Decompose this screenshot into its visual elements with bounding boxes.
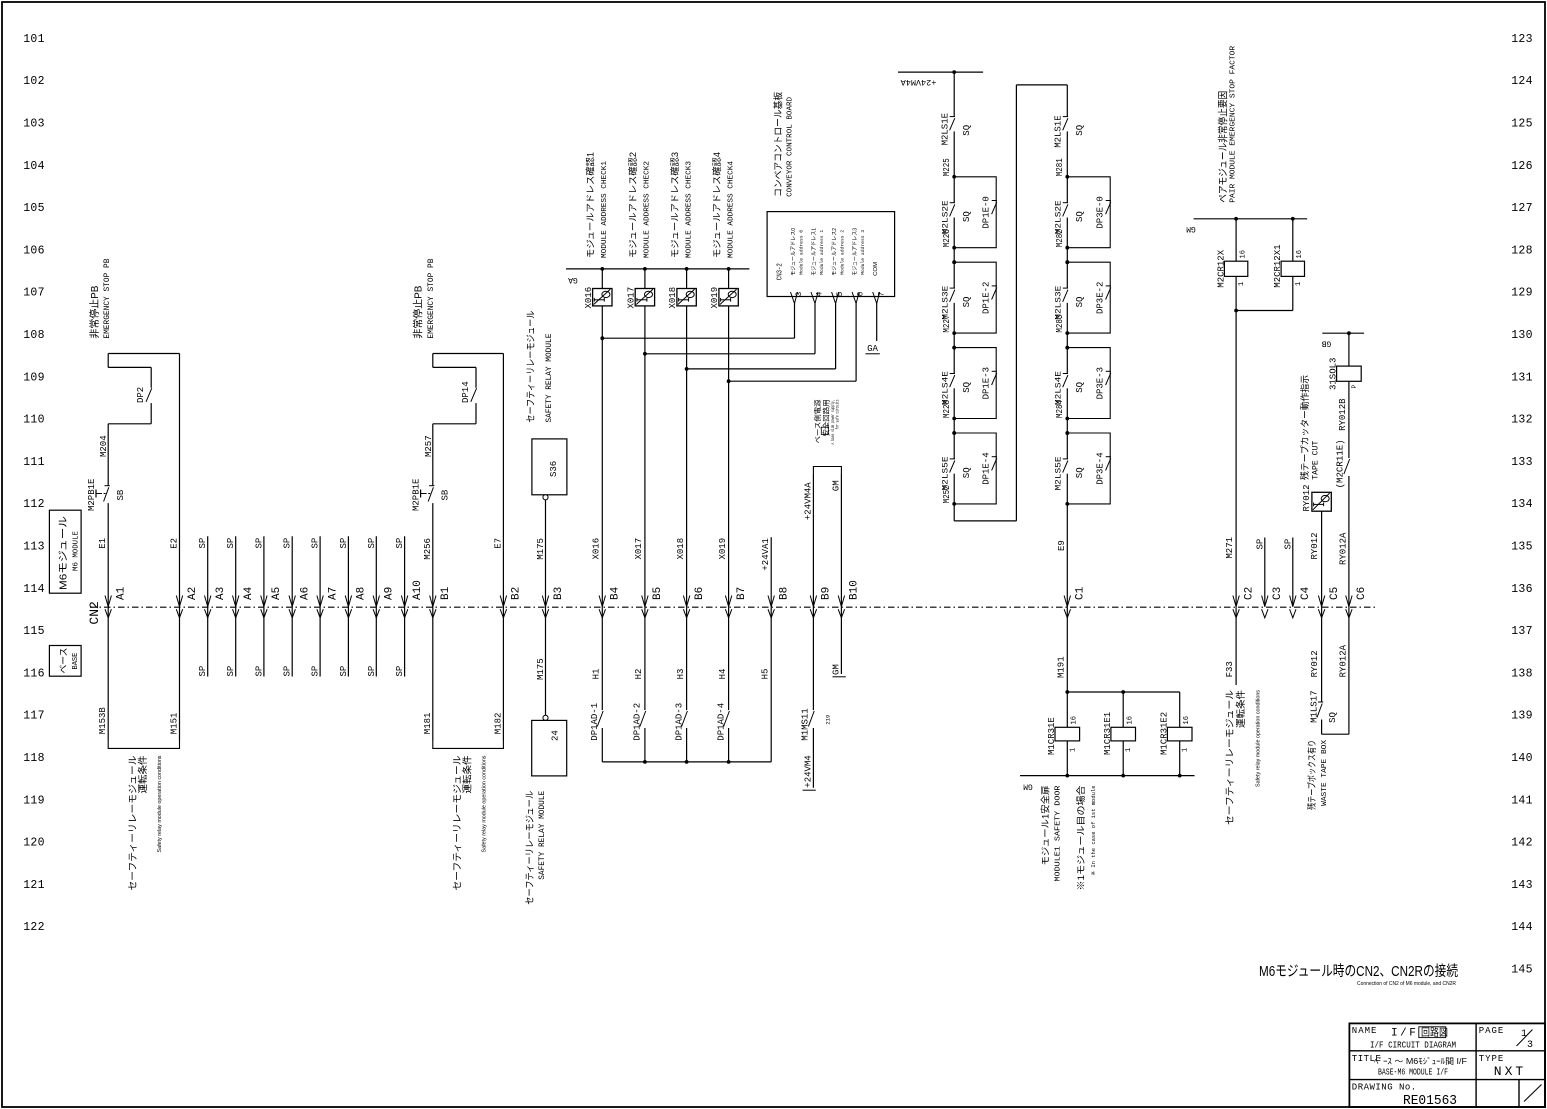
spare wire SP column A3 above CN2 xyxy=(207,536,209,676)
svg-text:M151: M151 xyxy=(170,713,180,735)
svg-text:140: 140 xyxy=(1511,752,1533,765)
contact (M2CR11E) xyxy=(1344,459,1350,474)
svg-text:1: 1 xyxy=(1069,748,1077,752)
node C6 connector CN2 pin xyxy=(1346,596,1352,607)
svg-text:A4: A4 xyxy=(243,586,255,600)
right margin row numbers 123-145 xyxy=(1511,33,1533,977)
svg-text:141: 141 xyxy=(1511,794,1533,807)
svg-text:M282: M282 xyxy=(1055,229,1065,247)
svg-text:PAGE: PAGE xyxy=(1479,1026,1505,1036)
junction node M281 xyxy=(1065,175,1069,179)
svg-text:123: 123 xyxy=(1511,33,1533,46)
solenoid 31SOL3 xyxy=(1337,366,1362,381)
svg-text:M252: M252 xyxy=(942,485,952,503)
svg-text:TAPE CUT: TAPE CUT xyxy=(1311,441,1320,480)
junction xyxy=(1234,309,1238,313)
wire B10 GM stub below CN2 xyxy=(840,607,842,674)
node C4 connector CN2 pin xyxy=(1290,596,1296,607)
svg-text:M191: M191 xyxy=(1057,656,1067,678)
svg-text:M256: M256 xyxy=(423,538,433,560)
wire xyxy=(728,728,730,762)
svg-text:M2PB1E: M2PB1E xyxy=(412,479,422,511)
svg-text:モジュールアドレス1: モジュールアドレス1 xyxy=(810,228,817,276)
power rail GM (pair module) xyxy=(1194,218,1308,220)
svg-text:115: 115 xyxy=(23,625,45,638)
svg-text:M153B: M153B xyxy=(98,707,108,735)
junction node M252 xyxy=(952,502,956,506)
spare wire SP column A5 above CN2 xyxy=(263,536,265,676)
contact DP1AD-4 xyxy=(724,711,730,727)
svg-text:X017: X017 xyxy=(634,538,644,560)
svg-text:M271: M271 xyxy=(1225,537,1235,559)
junction node M226 xyxy=(952,246,956,250)
wire xyxy=(953,72,955,117)
svg-text:C6: C6 xyxy=(1356,587,1368,600)
svg-text:B4: B4 xyxy=(610,586,622,600)
svg-text:EMERGENCY STOP PB: EMERGENCY STOP PB xyxy=(102,259,112,339)
wire xyxy=(686,728,688,762)
svg-text:136: 136 xyxy=(1511,583,1533,596)
junction node M225 xyxy=(952,175,956,179)
contact M2LS5E xyxy=(953,433,955,459)
svg-text:X018: X018 xyxy=(668,287,678,309)
wire X018 down to CN2 xyxy=(686,306,688,607)
svg-text:Module address 2: Module address 2 xyxy=(839,230,845,275)
junction xyxy=(685,367,689,371)
svg-text:M2LS2E: M2LS2E xyxy=(940,200,950,234)
wire xyxy=(953,419,955,434)
wire xyxy=(1179,692,1181,727)
svg-text:NAME: NAME xyxy=(1352,1026,1378,1036)
contact DP1E-0 xyxy=(992,200,997,202)
module box 24 (safety relay module) xyxy=(532,720,567,776)
node B1 connector CN2 pin xyxy=(430,596,436,607)
node B3 connector CN2 pin xyxy=(542,596,548,607)
svg-text:SB: SB xyxy=(441,489,451,500)
svg-text:+24VM4A: +24VM4A xyxy=(803,482,813,520)
wire xyxy=(1066,218,1068,248)
svg-text:モジュールアドレス0: モジュールアドレス0 xyxy=(790,228,797,276)
wire xyxy=(601,728,603,762)
svg-text:DP1E-3: DP1E-3 xyxy=(982,367,992,399)
svg-text:H2: H2 xyxy=(634,669,644,680)
wire xyxy=(1122,741,1124,776)
svg-text:134: 134 xyxy=(1511,498,1533,511)
svg-text:for safe circuits: for safe circuits xyxy=(835,399,841,429)
svg-text:SB: SB xyxy=(116,489,126,500)
svg-text:SQ: SQ xyxy=(1075,211,1085,222)
svg-text:M2LS3E: M2LS3E xyxy=(940,286,950,320)
svg-text:SP: SP xyxy=(254,538,264,549)
svg-text:+24VA1: +24VA1 xyxy=(761,538,771,570)
svg-text:120: 120 xyxy=(23,837,45,850)
I/O point X016 xyxy=(593,289,612,306)
I/O point X019 xyxy=(719,289,738,306)
pin 5 connector symbol xyxy=(832,292,839,304)
wire xyxy=(1292,219,1294,261)
junction xyxy=(1065,690,1069,694)
svg-text:M257: M257 xyxy=(424,435,434,457)
node A5 connector CN2 pin xyxy=(261,596,267,607)
svg-text:127: 127 xyxy=(1511,202,1533,215)
wire down to CN2 xyxy=(107,503,109,740)
svg-text:A8: A8 xyxy=(356,587,368,600)
node A10 connector CN2 pin xyxy=(401,596,407,607)
svg-text:運転条件: 運転条件 xyxy=(137,755,149,793)
wire xyxy=(475,403,477,424)
bypass branch DP3E-0 xyxy=(1067,177,1110,248)
wire xyxy=(1321,607,1323,702)
svg-text:M226: M226 xyxy=(942,229,952,247)
svg-text:DP3E-4: DP3E-4 xyxy=(1096,452,1106,484)
wire xyxy=(1066,85,1068,117)
bypass branch DP3E-4 xyxy=(1067,433,1110,504)
svg-text:運転条件: 運転条件 xyxy=(1235,690,1247,728)
svg-text:DP1AD-3: DP1AD-3 xyxy=(674,703,684,741)
junction xyxy=(1065,774,1069,778)
svg-text:CN2: CN2 xyxy=(87,601,102,624)
svg-text:144: 144 xyxy=(1511,921,1533,934)
svg-text:SP: SP xyxy=(226,666,236,677)
svg-text:RY012: RY012 xyxy=(1310,650,1320,677)
svg-text:P: P xyxy=(1351,385,1358,389)
node C5 connector CN2 pin xyxy=(1318,596,1324,607)
svg-text:16: 16 xyxy=(1183,716,1191,724)
svg-text:M281: M281 xyxy=(1055,158,1065,176)
svg-text:ﾍﾞｰｽ ～ M6ﾓｼﾞｭｰﾙ間 I/F: ﾍﾞｰｽ ～ M6ﾓｼﾞｭｰﾙ間 I/F xyxy=(1374,1057,1467,1066)
junction xyxy=(1178,774,1182,778)
svg-text:SP: SP xyxy=(339,666,349,677)
wire xyxy=(1066,741,1068,776)
svg-text:Connection of CN2 of M6 module: Connection of CN2 of M6 module, and CN2R xyxy=(1357,981,1456,987)
svg-text:3: 3 xyxy=(1527,1040,1533,1051)
wire xyxy=(953,303,955,333)
svg-text:B5: B5 xyxy=(652,587,664,600)
svg-text:142: 142 xyxy=(1511,837,1533,850)
svg-text:安全回路用: 安全回路用 xyxy=(822,400,831,437)
node B8 connector CN2 pin xyxy=(768,596,774,607)
svg-text:SP: SP xyxy=(311,538,321,549)
node B6 connector CN2 pin xyxy=(683,596,689,607)
contact M2LS1E (chain1) xyxy=(950,116,955,118)
svg-text:NXT: NXT xyxy=(1494,1064,1526,1079)
module box BASE xyxy=(49,646,81,677)
svg-text:F33: F33 xyxy=(1225,661,1235,677)
svg-text:E7: E7 xyxy=(493,538,503,549)
svg-text:M284: M284 xyxy=(1055,400,1065,418)
junction xyxy=(643,352,647,356)
svg-text:モジュールアドレス2: モジュールアドレス2 xyxy=(831,228,838,276)
pin 6 connector symbol xyxy=(852,292,859,304)
svg-text:残テープボックス有り: 残テープボックス有り xyxy=(1306,740,1317,810)
wire M175 to CN2 xyxy=(545,500,547,715)
svg-text:145: 145 xyxy=(1511,964,1533,977)
svg-text:WASTE TAPE BOX: WASTE TAPE BOX xyxy=(1321,739,1329,806)
junction node M227 xyxy=(952,346,956,350)
wire left leg xyxy=(432,354,434,368)
svg-text:C2: C2 xyxy=(1243,587,1255,600)
svg-text:M2LS5E: M2LS5E xyxy=(1053,457,1063,491)
spare wire SP column A6 above CN2 xyxy=(291,536,293,676)
svg-text:24: 24 xyxy=(551,730,561,741)
spare wire SP column A7 above CN2 xyxy=(319,536,321,676)
junction xyxy=(1121,774,1125,778)
wire xyxy=(1066,692,1068,727)
svg-text:E9: E9 xyxy=(1057,540,1067,551)
svg-text:5: 5 xyxy=(836,292,845,297)
svg-text:モジュールアドレス3: モジュールアドレス3 xyxy=(851,228,858,276)
junction node M228 xyxy=(952,417,956,421)
terminal circle xyxy=(543,715,548,720)
wire xyxy=(953,248,955,263)
svg-text:A7: A7 xyxy=(327,587,339,600)
bypass branch DP1E-3 xyxy=(954,348,996,419)
svg-text:H3: H3 xyxy=(676,669,686,680)
wire xyxy=(1066,303,1068,333)
svg-text:+24VM4A: +24VM4A xyxy=(900,77,937,87)
junction xyxy=(952,70,956,74)
svg-text:124: 124 xyxy=(1511,75,1533,88)
svg-text:SP: SP xyxy=(1283,539,1293,550)
svg-text:M2CR12X: M2CR12X xyxy=(1216,249,1226,287)
svg-text:SQ: SQ xyxy=(1075,125,1085,136)
wire rail M191 xyxy=(1067,691,1179,693)
svg-text:※ In the case of 1st module: ※ In the case of 1st module xyxy=(1090,786,1097,876)
contact M2LS2E xyxy=(1066,177,1068,203)
svg-text:143: 143 xyxy=(1511,879,1533,892)
svg-text:B2: B2 xyxy=(511,587,523,600)
wire H4 below CN2 xyxy=(728,607,730,710)
node C1 connector CN2 pin xyxy=(1064,596,1070,607)
svg-text:M2LS4E: M2LS4E xyxy=(1053,371,1063,405)
svg-text:GA: GA xyxy=(867,344,878,354)
svg-text:SQ: SQ xyxy=(1075,297,1085,308)
wire bottom rail GM xyxy=(1020,775,1195,777)
wire RY012B xyxy=(1348,381,1350,458)
svg-text:RY012B: RY012B xyxy=(1338,398,1348,431)
svg-text:BASE-M6 MODULE I/F: BASE-M6 MODULE I/F xyxy=(1378,1067,1448,1078)
contact SB emergency stop pushbutton xyxy=(105,485,110,487)
svg-text:RY012A: RY012A xyxy=(1339,644,1349,677)
svg-text:121: 121 xyxy=(23,879,45,892)
svg-text:GM: GM xyxy=(831,664,841,675)
terminal circle xyxy=(543,495,548,500)
svg-text:M6モジュール: M6モジュール xyxy=(59,516,70,590)
junction node xyxy=(1065,502,1069,506)
svg-text:7: 7 xyxy=(877,292,886,297)
svg-text:M6 MODULE: M6 MODULE xyxy=(73,531,81,571)
wire pin3 to X016 xyxy=(794,304,796,339)
svg-text:モジュールアドレス確認2: モジュールアドレス確認2 xyxy=(627,152,638,258)
svg-text:RY012A: RY012A xyxy=(1339,532,1349,565)
svg-text:M204: M204 xyxy=(99,435,109,457)
svg-text:SP: SP xyxy=(339,538,349,549)
junction node M284 xyxy=(1065,431,1069,435)
wire xyxy=(1066,474,1068,504)
svg-text:1: 1 xyxy=(1125,748,1133,752)
svg-text:H4: H4 xyxy=(718,669,728,680)
wire joining coils xyxy=(1236,310,1293,312)
svg-text:運転条件: 運転条件 xyxy=(462,755,474,793)
svg-text:EMERGENCY STOP PB: EMERGENCY STOP PB xyxy=(426,259,436,339)
title block frame xyxy=(1349,1023,1545,1107)
svg-text:S36: S36 xyxy=(549,461,559,477)
svg-text:16: 16 xyxy=(1071,716,1079,724)
svg-text:6: 6 xyxy=(857,292,866,297)
svg-text:I/F: I/F xyxy=(1391,1028,1418,1040)
bypass branch DP3E-3 xyxy=(1067,348,1110,419)
svg-text:126: 126 xyxy=(1511,160,1533,173)
svg-text:SP: SP xyxy=(367,538,377,549)
svg-text:SQ: SQ xyxy=(962,125,972,136)
contact M1MS11 xyxy=(808,711,814,727)
svg-text:M1MS11: M1MS11 xyxy=(800,708,810,740)
contact DP14 xyxy=(471,388,477,402)
svg-text:SQ: SQ xyxy=(962,211,972,222)
contact DP3E-2 xyxy=(1106,285,1111,287)
svg-text:B9: B9 xyxy=(821,587,833,600)
svg-text:X018: X018 xyxy=(676,538,686,560)
svg-text:E2: E2 xyxy=(170,538,180,549)
contact M2LS3E xyxy=(953,262,955,288)
spare wire SP column A8 above CN2 xyxy=(347,536,349,676)
node A7 connector CN2 pin xyxy=(317,596,323,607)
svg-text:SQ: SQ xyxy=(1075,467,1085,478)
wire pin6 to X019 xyxy=(855,304,857,382)
svg-text:A9: A9 xyxy=(384,587,396,600)
svg-text:A10: A10 xyxy=(412,580,424,600)
svg-text:TYPE: TYPE xyxy=(1479,1054,1505,1064)
spare wire SP column C3 xyxy=(1264,538,1266,607)
connector CN2 boundary dashed line xyxy=(90,606,1376,608)
svg-text:110: 110 xyxy=(23,414,45,427)
wire xyxy=(1122,692,1124,727)
svg-text:MODULE ADDRESS CHECK3: MODULE ADDRESS CHECK3 xyxy=(685,160,693,258)
title block diagonal xyxy=(1524,1085,1542,1102)
svg-text:SP: SP xyxy=(367,666,377,677)
wire xyxy=(601,269,603,289)
node A9 connector CN2 pin xyxy=(373,596,379,607)
node B2 connector CN2 pin xyxy=(500,596,506,607)
svg-text:DP1E-0: DP1E-0 xyxy=(982,196,992,228)
module box S36 xyxy=(532,439,567,495)
svg-text:X019: X019 xyxy=(710,287,720,309)
svg-text:B7: B7 xyxy=(736,587,748,600)
wire RY012A below CN2 xyxy=(1348,607,1350,734)
svg-text:117: 117 xyxy=(23,710,45,723)
svg-text:16: 16 xyxy=(1127,716,1135,724)
svg-text:H1: H1 xyxy=(592,669,602,680)
junction xyxy=(685,760,689,764)
contact M2LS3E xyxy=(1066,262,1068,288)
svg-text:M181: M181 xyxy=(423,713,433,735)
svg-text:Module address 0: Module address 0 xyxy=(798,230,804,275)
junction xyxy=(600,336,604,340)
wire xyxy=(1321,720,1323,735)
svg-text:111: 111 xyxy=(23,456,45,469)
module box M6 MODULE xyxy=(49,510,81,593)
junction xyxy=(1121,690,1125,694)
svg-text:118: 118 xyxy=(23,752,45,765)
svg-text:106: 106 xyxy=(23,244,45,257)
svg-text:セーフティーリレーモジュール: セーフティーリレーモジュール xyxy=(1225,689,1236,825)
svg-text:GB: GB xyxy=(1322,339,1332,348)
svg-text:B8: B8 xyxy=(779,587,791,600)
wire pin7 COM to GA xyxy=(876,304,878,342)
svg-text:Module address 3: Module address 3 xyxy=(860,230,866,275)
svg-text:非常停止PB: 非常停止PB xyxy=(88,285,101,338)
svg-text:1: 1 xyxy=(1295,282,1303,286)
svg-text:Module address 1: Module address 1 xyxy=(819,230,825,275)
svg-text:A3: A3 xyxy=(215,587,227,600)
contact DP3E-4 xyxy=(1106,456,1111,458)
wire M271 to CN2 xyxy=(1235,311,1237,608)
wire X017 down to CN2 xyxy=(644,306,646,607)
junction xyxy=(643,760,647,764)
svg-text:M2CR12X1: M2CR12X1 xyxy=(1273,244,1283,287)
svg-text:116: 116 xyxy=(23,667,45,680)
contact M2LS5E xyxy=(1066,433,1068,459)
wire xyxy=(1235,219,1237,261)
svg-text:M2PB1E: M2PB1E xyxy=(87,479,97,511)
wire xyxy=(728,269,730,289)
svg-text:SP: SP xyxy=(283,666,293,677)
svg-text:(M2CR11E): (M2CR11E) xyxy=(1335,439,1345,488)
svg-text:109: 109 xyxy=(23,371,45,384)
wire H2 below CN2 xyxy=(644,607,646,710)
svg-text:101: 101 xyxy=(23,33,45,46)
svg-text:M6モジュール時のCN2、CN2Rの接続: M6モジュール時のCN2、CN2Rの接続 xyxy=(1259,963,1458,980)
wire down to CN2 xyxy=(432,503,434,740)
bypass branch DP1E-2 xyxy=(954,262,996,333)
junction node M283 xyxy=(1065,331,1069,335)
svg-text:X016: X016 xyxy=(592,538,602,560)
junction xyxy=(1347,331,1351,335)
svg-text:ベース: ベース xyxy=(59,648,69,674)
svg-text:139: 139 xyxy=(1511,710,1533,723)
pushbutton operator M2PB1E xyxy=(95,490,97,498)
svg-text:I/F CIRCUIT DIAGRAM: I/F CIRCUIT DIAGRAM xyxy=(1370,1040,1456,1051)
svg-text:SP: SP xyxy=(226,538,236,549)
svg-text:ペアモジュール非常停止要因: ペアモジュール非常停止要因 xyxy=(1217,91,1230,203)
svg-text:C3: C3 xyxy=(1272,587,1284,600)
svg-text:SP: SP xyxy=(395,666,405,677)
node A1 connector CN2 pin xyxy=(105,596,111,607)
svg-text:モジュールアドレス確認1: モジュールアドレス確認1 xyxy=(585,152,596,258)
wire right leg down to CN2 xyxy=(502,354,504,741)
svg-text:SP: SP xyxy=(198,666,208,677)
svg-text:138: 138 xyxy=(1511,667,1533,680)
pin 4 connector symbol xyxy=(811,292,818,304)
svg-text:モジュールアドレス確認4: モジュールアドレス確認4 xyxy=(711,152,722,258)
node A8 connector CN2 pin xyxy=(345,596,351,607)
wire bottom rail of DP1AD group xyxy=(602,761,771,763)
svg-text:SP: SP xyxy=(198,538,208,549)
node A4 connector CN2 pin xyxy=(233,596,239,607)
svg-text:125: 125 xyxy=(1511,118,1533,131)
svg-text:X017: X017 xyxy=(626,287,636,309)
svg-text:130: 130 xyxy=(1511,329,1533,342)
svg-text:Safety relay module operation: Safety relay module operation conditions xyxy=(1256,689,1262,787)
spare wire SP column C4 xyxy=(1292,538,1294,607)
svg-text:A1: A1 xyxy=(116,586,128,600)
svg-text:セーフティーリレーモジュール: セーフティーリレーモジュール xyxy=(525,790,536,904)
svg-text:M1CR31E2: M1CR31E2 xyxy=(1159,712,1169,755)
svg-text:E1: E1 xyxy=(98,538,108,549)
contact DP1E-3 xyxy=(992,370,997,372)
svg-text:DP14: DP14 xyxy=(461,381,471,403)
svg-text:128: 128 xyxy=(1511,244,1533,257)
